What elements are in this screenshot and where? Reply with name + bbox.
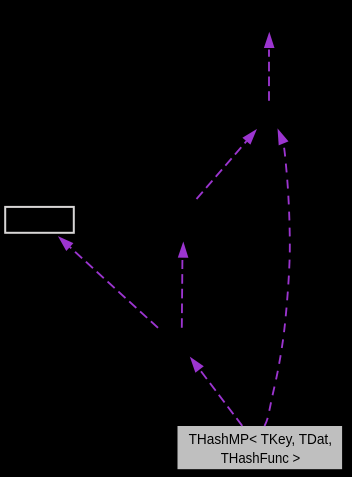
edge C->D (vertical, middle) wire xyxy=(178,242,189,328)
edge D->B (diagonal) wire xyxy=(197,129,258,199)
edge THashMP->C (diagonal) wire xyxy=(190,357,243,426)
node: empty box (left) xyxy=(5,207,74,233)
edge B->A (vertical, top) wire xyxy=(264,32,275,101)
svg-text:THashMP< TKey, TDat,: THashMP< TKey, TDat, xyxy=(189,431,332,448)
edge THashMP->B (long right curve) wire xyxy=(265,128,290,426)
edge C->leftbox (long diagonal) wire xyxy=(58,236,158,328)
svg-text:THashFunc >: THashFunc > xyxy=(221,450,301,467)
node THashMP< TKey, TDat, THashFunc > (current, grey) xyxy=(178,426,343,469)
